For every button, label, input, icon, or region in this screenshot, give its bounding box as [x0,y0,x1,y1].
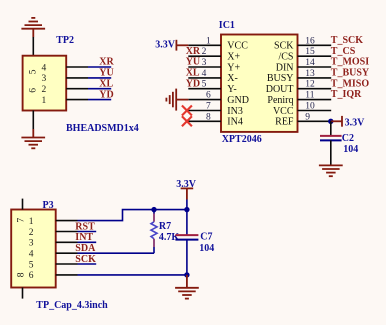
pin 6 of IC1 (GND) [188,91,249,106]
wire TP2 pin6 to bottom ground [32,111,34,130]
svg-text:XR: XR [99,57,114,68]
svg-text:YD: YD [99,89,113,100]
svg-text:X-: X- [227,73,238,84]
svg-text:T_BUSY: T_BUSY [331,68,370,79]
svg-text:SCK: SCK [274,41,294,52]
svg-text:R7: R7 [159,221,171,232]
svg-text:T_CS: T_CS [331,46,356,57]
wire net YU from TP2 [88,77,111,79]
svg-text:1: 1 [42,96,47,106]
wire net SDA from P3 [78,252,155,254]
node junction pin6/C7/ground [184,272,189,277]
svg-text:VCC: VCC [273,106,294,117]
svg-text:YU: YU [99,68,113,79]
pin 11 of IC1 (Penirq) [267,91,331,106]
svg-text:T_SCK: T_SCK [331,35,363,46]
ground GND-C7 [175,275,199,299]
svg-text:4.7K: 4.7K [159,232,180,243]
wire net XL from TP2 [88,88,111,90]
pin 3 of TP2 [42,74,89,84]
svg-text:1: 1 [29,217,34,227]
svg-text:X+: X+ [227,52,240,63]
svg-text:TP_Cap_4.3inch: TP_Cap_4.3inch [36,300,108,311]
svg-text:IN4: IN4 [227,117,243,128]
no-connect X at IC1 pin 7 [182,106,192,116]
svg-text:BUSY: BUSY [267,73,294,84]
svg-text:6: 6 [29,271,34,281]
svg-text:10: 10 [305,102,315,112]
pin 1 of P3 [29,217,78,227]
svg-text:GND: GND [227,95,249,106]
node junction at IC1 pin 9 / REF [328,119,333,124]
svg-text:T_IQR: T_IQR [331,89,362,100]
svg-text:16: 16 [305,36,315,46]
svg-text:/CS: /CS [278,52,293,63]
svg-text:6: 6 [206,91,211,101]
svg-text:14: 14 [305,58,315,68]
wire rail junction down to C7 [186,210,188,235]
svg-text:8: 8 [17,272,27,277]
svg-text:INT: INT [75,232,93,243]
svg-text:7: 7 [206,102,211,112]
power 3.3V at REF node [331,116,365,128]
ground GND-TP2-bottom [21,129,45,148]
pin 9 of IC1 (REF) [275,112,331,127]
svg-text:TP2: TP2 [56,35,74,46]
pin 5 of IC1 (Y-) [188,80,236,95]
svg-text:104: 104 [199,243,214,254]
svg-text:5: 5 [29,260,34,270]
capacitor C7 [175,235,198,240]
pin 8 of IC1 (IN4) [188,112,243,127]
wire net RST from P3 [78,231,97,233]
svg-text:IN3: IN3 [227,106,243,117]
pin 15 of IC1 (/CS) [278,47,331,62]
wire net YD from TP2 [88,99,111,101]
pin 16 of IC1 (SCK) [274,36,331,51]
svg-text:7: 7 [17,218,27,223]
power 3.3V at IC1 pin 1 [155,40,188,51]
svg-text:3: 3 [202,58,207,68]
pin 3 of IC1 (Y+) [188,58,240,73]
svg-text:Y+: Y+ [227,62,240,73]
pin 2 of TP2 [42,85,89,95]
wire C7 to ground node [186,240,188,275]
pin 3 of P3 [29,239,78,249]
svg-text:11: 11 [305,91,314,101]
svg-text:4: 4 [42,63,47,73]
svg-text:IC1: IC1 [219,20,235,31]
pin 7 stub of P3 [22,199,24,210]
svg-text:2: 2 [29,228,34,238]
svg-text:SCK: SCK [75,254,96,265]
wire C2 to ground [330,140,332,165]
svg-text:3: 3 [29,239,34,249]
svg-text:2: 2 [202,47,207,57]
svg-text:C7: C7 [200,231,212,242]
svg-text:2: 2 [42,85,47,95]
svg-text:DOUT: DOUT [266,84,294,95]
pin 1 of IC1 (VCC) [188,36,248,51]
power 3.3V above C7 [176,179,197,210]
pin 6 of P3 [29,271,78,281]
wire P3 pin6 to ground node [78,274,187,276]
pin 14 of IC1 (DIN) [276,58,331,73]
svg-text:REF: REF [275,117,294,128]
ground GND-C2 [319,164,343,166]
svg-text:3: 3 [42,74,47,84]
pin 7 of IC1 (IN3) [188,102,243,117]
pin 2 of IC1 (X+) [188,47,240,62]
svg-text:5: 5 [29,69,39,74]
resistor R7 [151,210,157,254]
pin 12 of IC1 (DOUT) [266,80,331,95]
svg-text:XL: XL [186,68,200,79]
pin 5 of P3 [29,260,78,270]
svg-text:4: 4 [202,69,207,79]
svg-text:C2: C2 [342,133,354,144]
wire net INT from P3 [78,241,97,243]
op-amp U1 body: IC1 XPT2046 rectangle [221,35,298,132]
svg-text:SDA: SDA [75,243,96,254]
pin 2 of P3 [29,228,78,238]
svg-text:XPT2046: XPT2046 [222,134,262,145]
svg-text:DIN: DIN [276,62,294,73]
pin 4 of IC1 (X-) [188,69,238,84]
ground GND-TP2-top [21,18,45,37]
svg-text:104: 104 [343,144,358,155]
svg-text:5: 5 [202,80,207,90]
svg-text:XR: XR [186,46,201,57]
node junction rail/C7 [184,207,189,212]
svg-text:T_MOSI: T_MOSI [331,57,369,68]
pin 8 stub of P3 [22,288,24,299]
ground at IC1 pin 6 [166,89,188,111]
svg-text:12: 12 [305,80,315,90]
wire TP2 pin5 to top ground [32,37,34,56]
no-connect X at IC1 pin 8 [182,116,192,126]
pin 13 of IC1 (BUSY) [267,69,331,84]
svg-text:3.3V: 3.3V [345,117,366,128]
svg-text:BHEADSMD1x4: BHEADSMD1x4 [66,123,139,134]
svg-text:VCC: VCC [227,41,248,52]
pin 4 of TP2 [42,63,89,73]
wire net SCK from P3 [78,263,97,265]
capacitor C2 [320,136,342,141]
wire net XR from TP2 [88,66,111,68]
pin 1 of TP2 [42,96,89,106]
connector TP2 body [23,56,67,111]
svg-text:RST: RST [75,221,95,232]
svg-text:1: 1 [206,36,211,46]
svg-text:4: 4 [29,250,34,260]
svg-text:3.3V: 3.3V [155,40,176,51]
node junction rail/R7 [151,207,156,212]
svg-text:Penirq: Penirq [267,95,293,106]
svg-text:Y-: Y- [227,84,236,95]
svg-text:YD: YD [186,78,200,89]
pin 10 of IC1 (VCC) [273,102,331,117]
wire REF node down to C2 [330,121,332,136]
svg-text:15: 15 [305,47,315,57]
svg-text:13: 13 [305,69,315,79]
connector P3 body [11,210,56,288]
svg-text:9: 9 [305,112,310,122]
svg-text:8: 8 [206,112,211,122]
pin 4 of P3 [29,250,78,260]
svg-text:YU: YU [186,57,200,68]
svg-text:6: 6 [29,88,39,93]
svg-text:T_MISO: T_MISO [331,78,370,89]
wire P3 pin1 to 3.3V rail [78,210,187,221]
svg-text:XL: XL [99,78,113,89]
